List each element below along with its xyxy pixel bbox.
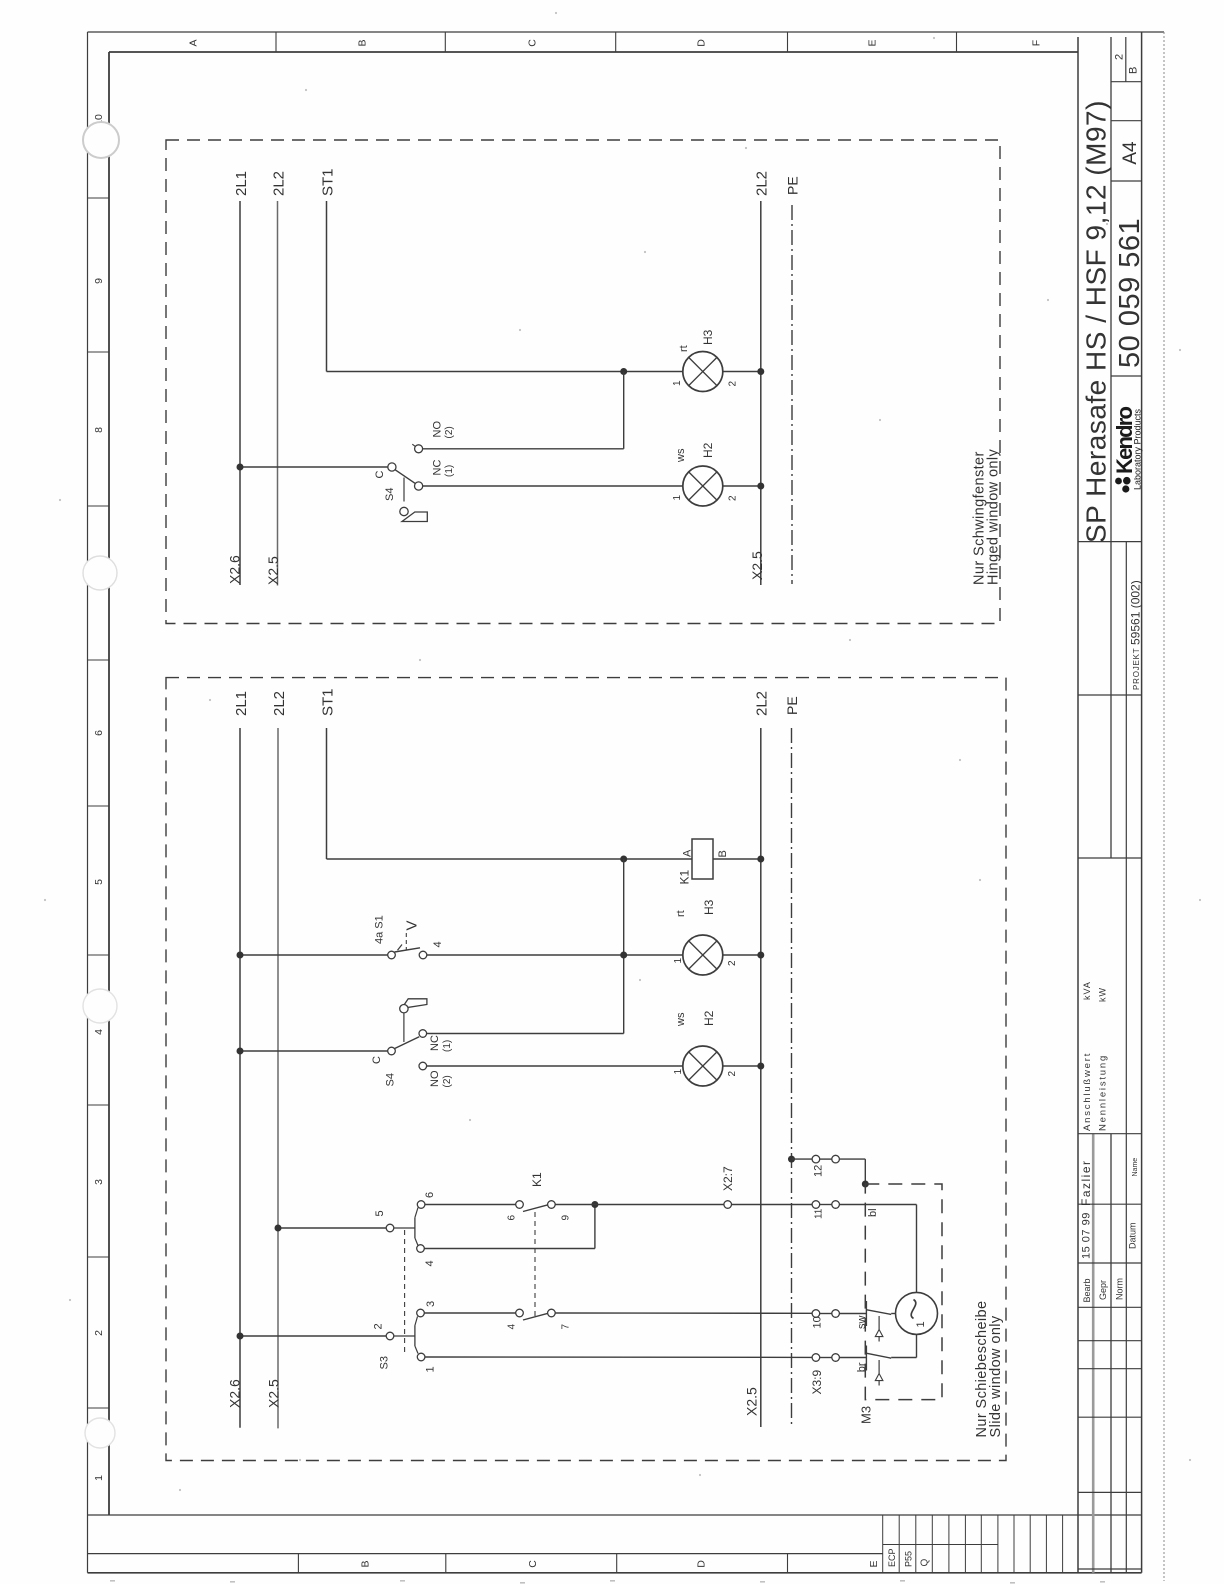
svg-text:1: 1	[672, 495, 683, 501]
switch S1 lever tick	[398, 945, 403, 951]
svg-text:2L2: 2L2	[754, 691, 771, 716]
lamp H2 (lower)	[683, 1046, 723, 1086]
svg-text:2: 2	[728, 381, 739, 387]
junction dot 2L1/S4 (upper)	[237, 464, 244, 471]
svg-text:4: 4	[507, 1324, 518, 1330]
svg-text:X2.6: X2.6	[227, 1379, 243, 1408]
lamp H3 (upper)	[683, 352, 723, 392]
junction dot 2L1/S1	[237, 952, 244, 959]
title block divider V2 lower	[1110, 1134, 1112, 1573]
svg-text:C: C	[527, 39, 539, 47]
frame tick left 2	[88, 351, 110, 353]
wire ST1 to relay K1 coil	[327, 858, 693, 860]
wire 10 to thermal contact	[839, 1313, 866, 1315]
wire 10 row from K1	[555, 1312, 812, 1314]
svg-text:M3: M3	[859, 1406, 874, 1424]
svg-text:H3: H3	[701, 329, 715, 345]
wire 2L2 right rail (upper)	[760, 201, 762, 585]
wire 2L1 rail (lower)	[239, 728, 241, 1428]
wire ST1 rail (lower)	[326, 728, 328, 859]
lamp H2 (upper)	[683, 466, 723, 506]
motor M3 circle	[896, 1292, 938, 1334]
frame tick left 6	[88, 954, 110, 956]
svg-text:2: 2	[93, 1330, 105, 1336]
svg-text:Anschlußwert: Anschlußwert	[1082, 1052, 1093, 1131]
svg-text:E: E	[868, 1560, 880, 1567]
wire 12 middle	[820, 1158, 832, 1160]
wire riser ST1row to NC row	[623, 859, 625, 1034]
svg-text:Bearb: Bearb	[1082, 1278, 1092, 1302]
title block horizontal divider 4	[1111, 375, 1142, 377]
relay contact K1 upper lever	[523, 1205, 548, 1212]
svg-text:2L2: 2L2	[271, 691, 288, 716]
thermal arrow sw	[875, 1316, 883, 1342]
wire PE rail (upper, dash-dot)	[791, 205, 793, 584]
svg-text:10: 10	[811, 1316, 823, 1328]
svg-text:B: B	[359, 1560, 371, 1567]
frame tick bottom 4	[787, 1554, 789, 1573]
svg-text:C: C	[374, 471, 386, 479]
terminal circle 10a	[812, 1310, 820, 1318]
junction dot 2L1/S4 (lower)	[237, 1048, 244, 1055]
switch S4 lever (lower)	[395, 1037, 420, 1049]
relay contact K1 upper right	[548, 1201, 556, 1209]
svg-text:ws: ws	[675, 448, 687, 463]
svg-text:X2:7: X2:7	[721, 1166, 735, 1191]
svg-text:NC: NC	[431, 460, 443, 476]
title block horizontal divider 13	[1078, 1368, 1142, 1370]
frame bottom edge line	[88, 1572, 1142, 1574]
S3 lever diag to 4	[415, 1238, 418, 1246]
switch S3 contact 5	[386, 1224, 394, 1232]
wire riser motor to br	[916, 1335, 918, 1358]
punch hole 1	[83, 122, 119, 158]
svg-text:ws: ws	[675, 1012, 687, 1027]
terminal circle 10b	[832, 1310, 840, 1318]
wire 2L2 to S3 contact 5	[278, 1227, 386, 1229]
title block horizontal divider 9	[1078, 1203, 1142, 1205]
svg-text:NO: NO	[429, 1070, 441, 1087]
switch S1 contact 4	[419, 951, 427, 959]
wire S3-3 to K1 lower contact	[424, 1312, 515, 1314]
wire riser 4-row to 6-row	[594, 1205, 596, 1249]
wire br to thermal contact	[839, 1357, 866, 1359]
svg-text:11: 11	[813, 1208, 824, 1219]
title block divider V2 upper	[1110, 37, 1112, 858]
svg-text:X2.6: X2.6	[227, 555, 243, 584]
switch S4 NO contact (upper)	[415, 445, 423, 453]
thermal contact br lever	[867, 1353, 891, 1358]
switch S1 contact 4a	[388, 951, 396, 959]
junction dot riser/6-row	[591, 1201, 598, 1208]
wire H2 to 2L2 (lower)	[722, 1065, 761, 1067]
terminal circle X3:9a	[812, 1354, 820, 1362]
wire S3-6 to K1 contact	[425, 1204, 516, 1206]
relay contact K1 lower right	[548, 1309, 556, 1317]
svg-text:2: 2	[727, 960, 738, 966]
title block horizontal divider 16	[1078, 1568, 1142, 1570]
frame tick left 4	[88, 659, 110, 661]
upper circuit dashed box	[166, 140, 1000, 624]
svg-text:9: 9	[93, 278, 105, 284]
frame tick top 1	[275, 32, 277, 52]
svg-text:3: 3	[93, 1179, 105, 1185]
frame tick top 2	[444, 32, 446, 52]
wire H2 to 2L2 (upper)	[722, 485, 761, 487]
wire H3 to 2L2 (lower)	[722, 954, 761, 956]
junction dot H3/2L2 (upper)	[757, 368, 764, 375]
frame bottom strip line	[88, 1514, 1142, 1516]
svg-text:D: D	[696, 39, 708, 47]
wire S3-4 row	[424, 1248, 595, 1250]
wire NC row (lower)	[427, 1033, 624, 1035]
S4 actuator roller (lower)	[400, 1005, 408, 1013]
frame inner border left	[108, 52, 110, 1515]
svg-text:S4: S4	[385, 1073, 397, 1086]
thermal contact sw lever	[867, 1310, 891, 1315]
svg-text:Nennleistung: Nennleistung	[1098, 1054, 1109, 1131]
wire K1 coil to 2L2	[713, 858, 761, 860]
wire PE to terminal 12	[792, 1158, 813, 1160]
svg-text:Gepr: Gepr	[1098, 1280, 1108, 1300]
svg-text:1: 1	[425, 1366, 437, 1372]
svg-text:1: 1	[673, 958, 684, 964]
svg-text:Name: Name	[1132, 1158, 1139, 1177]
svg-text:(1): (1)	[442, 1040, 453, 1052]
svg-text:(2): (2)	[442, 1075, 453, 1087]
svg-text:B: B	[357, 39, 369, 46]
junction dot 2L2/S3	[275, 1225, 282, 1232]
frame inner border top	[109, 51, 1078, 53]
svg-text:3: 3	[425, 1301, 437, 1307]
svg-text:NC: NC	[429, 1035, 441, 1051]
frame tick left 9	[88, 1407, 110, 1409]
title block horizontal divider 14	[1078, 1416, 1142, 1418]
S3 lever stub 2	[394, 1335, 415, 1337]
S3 lever diag to 6	[415, 1208, 418, 1218]
wire 2L1 to S4 common (upper)	[240, 466, 388, 468]
wire 12 drop to M3	[864, 1159, 866, 1184]
frame tick top 4	[787, 32, 789, 52]
switch S4 NC contact (upper)	[415, 482, 423, 490]
svg-text:59561 (002): 59561 (002)	[1129, 580, 1143, 645]
terminal circle 12b	[832, 1155, 840, 1163]
junction dot H2/2L2 (lower)	[757, 1063, 764, 1070]
S3 mechanical dashed link	[404, 1230, 406, 1355]
wire riser bl to motor	[916, 1205, 918, 1293]
svg-text:4: 4	[432, 941, 444, 947]
frame outer border right (faint)	[1163, 32, 1165, 1581]
frame tick bottom 3	[616, 1554, 618, 1573]
svg-text:SP Herasafe HS / HSF 9,12 (M9: SP Herasafe HS / HSF 9,12 (M97)	[1081, 100, 1112, 543]
S4 actuator flag (lower)	[404, 999, 427, 1008]
wire K1 row to X2:7	[555, 1204, 724, 1206]
switch S4 common contact (upper)	[388, 463, 396, 471]
svg-text:Fazlier: Fazlier	[1079, 1159, 1093, 1206]
frame bottom letter band line	[88, 1553, 883, 1555]
switch S3 contact 1	[417, 1353, 425, 1361]
svg-text:A4: A4	[1120, 141, 1141, 165]
junction dot H3 branch (lower)	[620, 952, 627, 959]
svg-text:D: D	[696, 1560, 708, 1568]
switch S4 common contact (lower)	[388, 1047, 396, 1055]
svg-text:H2: H2	[702, 1010, 716, 1026]
svg-text:12: 12	[812, 1165, 824, 1177]
wire 11 middle	[820, 1204, 832, 1206]
K1 mechanical dashed link	[534, 1212, 536, 1319]
wire 2L2 rail (lower)	[277, 728, 279, 1428]
wire NO riser (upper)	[623, 372, 625, 449]
frame outer border top	[88, 31, 1165, 33]
svg-text:2L1: 2L1	[233, 691, 250, 716]
svg-text:7: 7	[561, 1324, 572, 1330]
wire 12 to M3 corner	[839, 1158, 865, 1160]
switch S3 contact 2	[386, 1332, 394, 1340]
wire 2L1 to S1	[240, 954, 388, 956]
punch hole 2	[83, 556, 117, 590]
relay K1 coil	[692, 839, 713, 879]
wire 2L1 to S4 common (lower)	[240, 1050, 388, 1052]
punch hole 3	[83, 989, 117, 1023]
svg-text:2L1: 2L1	[233, 171, 250, 196]
title block divider V3	[1125, 542, 1127, 1573]
svg-text:2: 2	[1114, 54, 1126, 60]
svg-text:kW: kW	[1098, 987, 1108, 1002]
junction dot H2/2L2 (upper)	[757, 483, 764, 490]
frame tick left 7	[88, 1104, 110, 1106]
S3 lever diag to 3	[415, 1317, 418, 1326]
wire X2:7 to terminal 11	[732, 1204, 813, 1206]
svg-text:6: 6	[424, 1192, 436, 1198]
title block horizontal divider 1	[1111, 81, 1142, 83]
wire 2L1 rail (upper)	[239, 201, 241, 585]
svg-text:(2): (2)	[444, 426, 455, 438]
svg-text:6: 6	[93, 730, 105, 736]
svg-text:50 059 561: 50 059 561	[1114, 218, 1146, 368]
svg-text:C: C	[371, 1056, 383, 1064]
S4 actuator flag (upper)	[402, 512, 427, 522]
svg-text:E: E	[867, 39, 879, 46]
wire 2L2 right rail (lower)	[760, 728, 762, 1427]
svg-text:Q: Q	[920, 1559, 931, 1567]
terminal circle X3:9b	[832, 1354, 840, 1362]
terminal circle 11a	[812, 1201, 820, 1209]
junction dot M3 frame	[862, 1181, 869, 1188]
wire S1 to lamp H3 (lower)	[427, 954, 684, 956]
svg-text:PROJEKT: PROJEKT	[1132, 648, 1141, 691]
relay contact K1 upper left	[516, 1201, 524, 1209]
svg-text:2: 2	[727, 1071, 738, 1077]
punch hole 4	[85, 1418, 115, 1448]
switch S4 NC contact (lower)	[419, 1030, 427, 1038]
svg-text:2: 2	[728, 495, 739, 501]
thermal contact sw fixed bar	[865, 1301, 867, 1326]
svg-text:4a S1: 4a S1	[374, 915, 386, 944]
svg-text:2: 2	[373, 1323, 385, 1329]
title block horizontal divider 12	[1078, 1340, 1142, 1342]
title block horizontal divider 15	[1078, 1491, 1142, 1493]
svg-text:H3: H3	[702, 899, 716, 915]
frame tick left 8	[88, 1256, 110, 1258]
wire thermal sw to motor	[891, 1313, 896, 1315]
svg-text:5: 5	[93, 879, 105, 885]
motor M3 dashed enclosure	[865, 1184, 942, 1400]
frame tick top 3	[615, 32, 617, 52]
wire 2L2 rail (upper)	[277, 201, 279, 586]
svg-text:B: B	[717, 850, 729, 857]
svg-text:V: V	[404, 920, 421, 930]
title block horizontal divider 7	[1078, 857, 1142, 859]
terminal circle 12a	[812, 1155, 820, 1163]
svg-text:PE: PE	[784, 696, 800, 715]
switch S4 NO contact (lower)	[419, 1062, 427, 1070]
S3 lever bar lower	[414, 1326, 416, 1347]
svg-text:P55: P55	[904, 1551, 914, 1567]
svg-text:Datum: Datum	[1128, 1222, 1138, 1249]
svg-text:rt: rt	[675, 910, 687, 917]
title block right edge	[1141, 32, 1143, 1573]
svg-text:4: 4	[424, 1260, 436, 1266]
title block horizontal divider 10	[1078, 1262, 1142, 1264]
S3 lever stub 5	[394, 1227, 415, 1229]
title block horizontal divider 6	[1078, 694, 1142, 696]
svg-text:F: F	[1031, 40, 1043, 46]
wire ST1 rail (upper)	[326, 201, 328, 372]
title block divider V3 sheet cell	[1125, 37, 1127, 82]
Kendro logo dots	[1115, 477, 1131, 493]
svg-text:S3: S3	[379, 1356, 391, 1369]
switch S3 contact 6	[417, 1201, 425, 1209]
frame tick left 5	[88, 805, 110, 807]
lower circuit dashed box	[166, 678, 1006, 1461]
frame tick left 3	[88, 505, 110, 507]
S1 actuator dashed link	[405, 933, 407, 950]
svg-text:H2: H2	[701, 442, 715, 458]
title block horizontal divider 8	[1078, 1133, 1142, 1135]
svg-text:S4: S4	[384, 488, 396, 501]
svg-text:ST1: ST1	[320, 688, 337, 716]
svg-text:(1): (1)	[444, 465, 455, 477]
svg-text:NO: NO	[431, 421, 443, 438]
svg-text:2L2: 2L2	[754, 171, 771, 196]
S3 lever diag to 1	[415, 1346, 418, 1354]
lamp H3 (lower)	[683, 935, 723, 975]
switch S1 lever	[395, 948, 421, 952]
wire NC row to lamp H2 (upper)	[423, 485, 684, 487]
svg-text:8: 8	[93, 427, 105, 433]
title block horizontal divider 11	[1078, 1306, 1142, 1308]
thermal arrow br	[875, 1360, 883, 1386]
svg-text:Slide window only: Slide window only	[988, 1315, 1004, 1437]
svg-text:Norm: Norm	[1115, 1278, 1125, 1300]
svg-text:X2.5: X2.5	[265, 1379, 281, 1408]
wire NO row to lamp H2 (lower)	[427, 1065, 684, 1067]
svg-text:X3:9: X3:9	[810, 1369, 824, 1394]
svg-text:PE: PE	[785, 176, 801, 195]
svg-text:5: 5	[374, 1210, 386, 1216]
svg-text:ECP: ECP	[887, 1548, 897, 1567]
wire H3 to 2L2 (upper)	[722, 371, 761, 373]
junction dot PE/12	[788, 1156, 795, 1163]
title block divider Bearb column (thick grey)	[1092, 1134, 1095, 1573]
junction dot K1coil/2L2	[757, 856, 764, 863]
thermal contact br fixed bar	[865, 1346, 867, 1371]
wire br middle	[820, 1357, 832, 1359]
relay contact K1 lower lever	[523, 1313, 548, 1320]
svg-text:2L2: 2L2	[271, 171, 288, 196]
wire PE rail (lower, dash-dot)	[791, 728, 793, 1427]
title block horizontal divider 5	[1078, 541, 1142, 543]
svg-text:15 07 99: 15 07 99	[1081, 1212, 1093, 1259]
svg-text:B: B	[1128, 67, 1140, 74]
svg-text:A: A	[188, 39, 200, 46]
frame tick top 5	[956, 32, 958, 52]
wire ST1 to lamp H3 (upper)	[327, 371, 684, 373]
switch S3 contact 4	[417, 1245, 425, 1253]
frame outer border left	[87, 32, 89, 1573]
wire 11/bl to motor riser	[839, 1204, 916, 1206]
junction dot K1 coil branch	[620, 856, 627, 863]
svg-text:K1: K1	[678, 869, 692, 884]
title block horizontal divider 3	[1111, 180, 1142, 182]
svg-text:9: 9	[561, 1215, 572, 1221]
svg-text:rt: rt	[678, 345, 690, 352]
S4 actuator link (lower)	[403, 1013, 405, 1042]
svg-text:A: A	[682, 849, 694, 857]
terminal circle 11b	[832, 1201, 840, 1209]
svg-text:Laboratory Products: Laboratory Products	[1133, 408, 1143, 490]
junction dot H3/2L2 (lower)	[757, 952, 764, 959]
motor tilde symbol	[911, 1300, 916, 1319]
title block left edge	[1077, 37, 1079, 1573]
wire S3-1 row to terminals	[425, 1356, 812, 1358]
switch S4 lever (upper)	[395, 470, 415, 484]
S3 lever bar upper	[414, 1218, 416, 1238]
wire NO row (upper)	[422, 448, 623, 450]
frame tick bottom 2	[445, 1554, 447, 1573]
svg-text:1: 1	[673, 1069, 684, 1075]
switch S4 NO lever tick (upper)	[412, 444, 416, 447]
S4 actuator link (upper)	[403, 478, 405, 502]
svg-text:K1: K1	[530, 1172, 544, 1187]
junction dot H3 branch (upper)	[620, 368, 627, 375]
svg-text:ST1: ST1	[320, 168, 337, 196]
svg-text:1: 1	[93, 1475, 105, 1481]
frame tick bottom 1	[297, 1554, 299, 1573]
relay contact K1 lower left	[516, 1309, 524, 1317]
wire 10 middle	[820, 1313, 832, 1315]
terminal circle X2:7	[724, 1201, 732, 1209]
wire 2L1 to S3 contact 2	[240, 1335, 386, 1337]
svg-text:4: 4	[93, 1029, 105, 1035]
svg-text:Hinged window only: Hinged window only	[986, 448, 1002, 585]
svg-text:bl: bl	[867, 1208, 879, 1217]
junction dot 2L1/S3-2	[237, 1333, 244, 1340]
svg-text:X2.5: X2.5	[749, 551, 765, 580]
switch S3 contact 3	[417, 1309, 425, 1317]
svg-text:6: 6	[507, 1215, 518, 1221]
title block horizontal divider 2	[1111, 120, 1142, 122]
frame tick left 1	[88, 197, 110, 199]
S4 actuator roller (upper)	[400, 507, 408, 515]
wire thermal br to motor riser	[891, 1357, 916, 1359]
svg-text:1: 1	[672, 380, 683, 386]
svg-text:X2.5: X2.5	[265, 556, 281, 585]
svg-text:1: 1	[915, 1321, 927, 1327]
svg-text:kVA: kVA	[1082, 981, 1092, 1000]
svg-text:C: C	[527, 1560, 539, 1568]
svg-text:X2.5: X2.5	[744, 1387, 760, 1416]
